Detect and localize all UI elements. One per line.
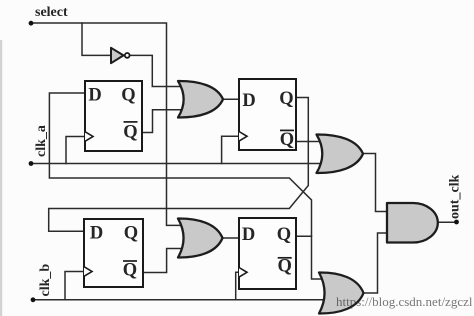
svg-text:D: D [88, 86, 101, 106]
svg-text:https://blog.csdn.net/zgczl: https://blog.csdn.net/zgczl [336, 294, 473, 309]
svg-text:D: D [242, 225, 255, 245]
svg-text:clk_a: clk_a [34, 125, 49, 157]
svg-text:Q: Q [124, 224, 138, 244]
svg-text:out_clk: out_clk [448, 174, 463, 219]
svg-text:select: select [35, 5, 68, 20]
svg-text:D: D [90, 224, 103, 244]
svg-text:Q: Q [121, 86, 135, 106]
svg-text:Q: Q [123, 123, 137, 143]
svg-text:clk_b: clk_b [38, 264, 53, 297]
svg-text:Q: Q [280, 130, 294, 150]
svg-text:D: D [242, 91, 255, 111]
svg-text:Q: Q [279, 89, 293, 109]
svg-text:Q: Q [123, 261, 137, 281]
svg-text:Q: Q [278, 257, 292, 277]
svg-text:Q: Q [277, 225, 291, 245]
